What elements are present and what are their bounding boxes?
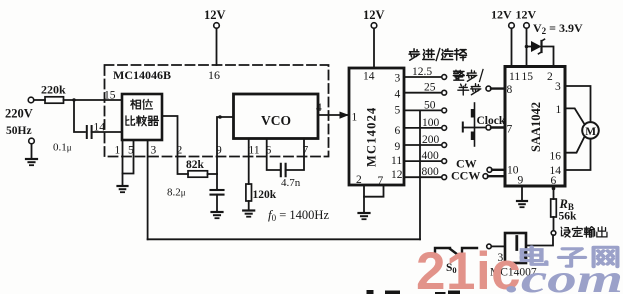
svg-text:11: 11	[509, 71, 520, 83]
svg-text:25: 25	[424, 82, 436, 94]
svg-text:f0 = 1400Hz: f0 = 1400Hz	[268, 207, 329, 223]
node clock input	[486, 125, 491, 130]
wire feedback riser to 800 line	[419, 177, 421, 239]
node full/half step input	[486, 86, 491, 91]
svg-text:50: 50	[424, 99, 436, 111]
svg-text:12V: 12V	[491, 8, 512, 22]
svg-text:3: 3	[395, 73, 401, 85]
zener diode V2 3.9V	[525, 45, 529, 49]
wire pin3 to motor	[565, 86, 591, 122]
watermark dianziwang	[522, 247, 618, 267]
svg-text:CCW: CCW	[451, 169, 480, 183]
svg-text:220V: 220V	[5, 107, 33, 121]
ground under pin 9	[521, 186, 523, 201]
wire output 25	[404, 92, 442, 94]
svg-text:3: 3	[555, 81, 561, 93]
ground	[212, 211, 223, 213]
switch S0	[435, 248, 450, 253]
svg-text:.com: .com	[506, 256, 623, 294]
svg-text:50Hz: 50Hz	[6, 125, 32, 137]
svg-text:Clock: Clock	[477, 115, 506, 127]
svg-text:9: 9	[395, 141, 401, 153]
wire output 800	[404, 176, 442, 178]
svg-text:16: 16	[550, 151, 562, 163]
node set output	[551, 231, 556, 236]
label bujin/xuanze	[409, 49, 466, 61]
svg-text:1: 1	[352, 112, 358, 124]
node AC neutral terminal	[29, 138, 35, 144]
svg-text:9: 9	[216, 145, 222, 157]
svg-text:14: 14	[363, 71, 375, 83]
svg-text:56k: 56k	[559, 211, 578, 223]
svg-text:1: 1	[115, 145, 121, 157]
svg-text:SAA1042: SAA1042	[529, 102, 543, 152]
wire	[64, 99, 123, 101]
wire output 200	[404, 144, 442, 146]
svg-text:9: 9	[518, 175, 524, 187]
svg-text:MC14046B: MC14046B	[113, 68, 171, 82]
resistor RB 56k	[553, 186, 555, 199]
svg-text:200: 200	[422, 134, 440, 146]
svg-text:11: 11	[249, 145, 260, 157]
inverter U4 MC14007	[505, 233, 526, 263]
svg-text:12V: 12V	[204, 8, 226, 22]
svg-text:12.5: 12.5	[412, 66, 432, 78]
wire feedback vertical from pin3	[147, 140, 149, 239]
capacitor 8.2u	[216, 174, 218, 190]
caption fragments bottom	[367, 290, 461, 294]
svg-text:800: 800	[422, 166, 440, 178]
svg-text:M: M	[585, 126, 596, 138]
svg-text:11: 11	[391, 155, 402, 167]
label zhengbu/banbu	[453, 70, 481, 95]
wire	[208, 173, 218, 175]
phase comparator block (xiangwei bijiaoqi)	[122, 94, 162, 140]
node junction	[72, 98, 75, 101]
wire output 50	[404, 109, 442, 111]
svg-text:5: 5	[395, 105, 401, 117]
wire feedback bottom horizontal	[148, 238, 420, 240]
wire set output down to inverter	[526, 235, 553, 245]
wire pin1 to motor	[565, 108, 585, 124]
wire	[216, 28, 218, 65]
motor M	[582, 122, 599, 139]
wire	[74, 100, 85, 132]
wire output 100	[404, 127, 442, 129]
svg-text:0.1μ: 0.1μ	[53, 142, 72, 154]
wire selector ladder	[419, 110, 421, 177]
svg-text:12V: 12V	[363, 8, 385, 22]
svg-text:8: 8	[507, 84, 513, 96]
svg-text:15: 15	[522, 71, 534, 83]
svg-text:4: 4	[316, 102, 322, 114]
svg-text:V2 = 3.9V: V2 = 3.9V	[533, 21, 583, 36]
svg-text:3: 3	[151, 145, 157, 157]
ground	[122, 174, 124, 187]
wire pin16 to motor	[565, 136, 585, 152]
svg-text:2: 2	[356, 174, 362, 186]
svg-text:16: 16	[208, 68, 220, 82]
wire VCO input pin9	[217, 117, 234, 174]
svg-text:2: 2	[177, 145, 183, 157]
svg-text:12V: 12V	[516, 8, 537, 22]
svg-text:1: 1	[556, 104, 562, 116]
node AC input terminal	[28, 97, 34, 103]
counter U2 MC14024	[349, 68, 404, 185]
wire output 400	[404, 160, 442, 162]
svg-text:7: 7	[507, 124, 513, 136]
svg-text:100: 100	[422, 117, 440, 129]
capacitor 4.7n	[280, 164, 282, 176]
svg-text:8.2μ: 8.2μ	[167, 187, 186, 199]
svg-text:4: 4	[395, 89, 401, 101]
VCO block	[234, 94, 319, 139]
resistor 82k	[188, 171, 208, 177]
driver U3 SAA1042	[505, 67, 565, 187]
svg-text:15: 15	[104, 90, 116, 102]
wire phase comp output pin2	[162, 116, 188, 174]
wire output 12.5	[404, 76, 442, 78]
svg-text:400: 400	[422, 150, 440, 162]
svg-text:2: 2	[547, 71, 553, 83]
capacitor 0.1u	[86, 126, 88, 138]
svg-text:14: 14	[94, 122, 106, 134]
ground	[31, 144, 33, 159]
svg-text:6: 6	[395, 125, 401, 137]
svg-text:82k: 82k	[186, 159, 205, 171]
node inverter input	[487, 244, 492, 249]
clock waveform symbol	[474, 103, 476, 146]
wire pin14 to motor	[565, 139, 591, 170]
svg-text:VCO: VCO	[261, 113, 291, 128]
wire VCO out to MC14024 pin1	[318, 114, 349, 116]
svg-text:MC14024: MC14024	[365, 107, 379, 167]
wire	[34, 99, 45, 101]
svg-text:220k: 220k	[41, 83, 66, 97]
op-amp U1 MC14046B dashed outline	[105, 65, 329, 157]
svg-text:4.7n: 4.7n	[281, 177, 301, 189]
svg-text:12: 12	[391, 169, 403, 181]
resistor 220k	[45, 97, 64, 103]
svg-text:120k: 120k	[253, 189, 277, 201]
